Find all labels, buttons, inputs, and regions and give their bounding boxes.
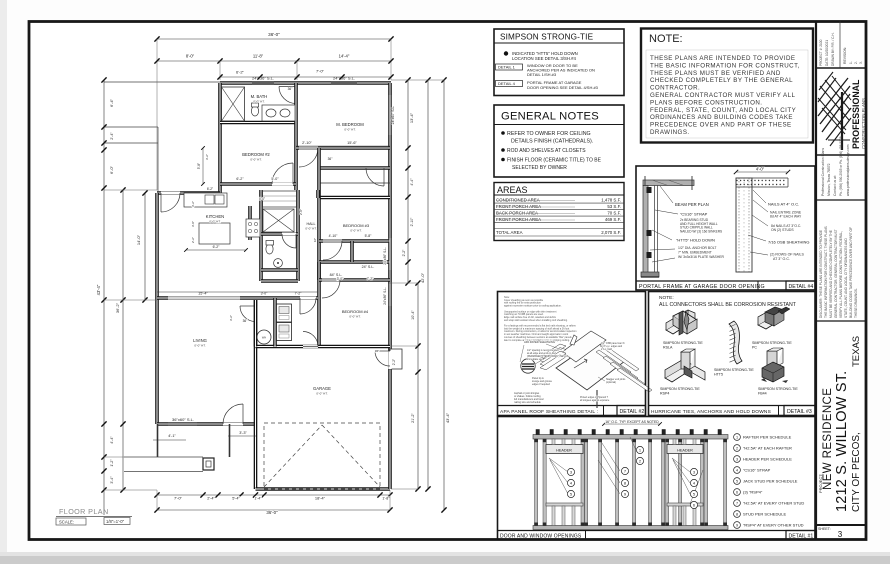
svg-text:TOTAL AREA: TOTAL AREA [496,230,523,235]
svg-text:TEXAS: TEXAS [851,336,862,367]
svg-text:SIMPSON STRONG-TIE: SIMPSON STRONG-TIE [752,341,792,345]
dim right chain x428 [427,80,429,489]
svg-text:immediate use: immediate use [527,358,543,361]
svg-text:6'-2": 6'-2" [236,177,244,181]
opening living kitchen [168,297,240,300]
svg-text:BEDROOM #3: BEDROOM #3 [343,223,370,228]
svg-text:4'-1": 4'-1" [168,434,176,438]
svg-text:DATE: 10/20/2021: DATE: 10/20/2021 [825,40,829,66]
portal frame panel box [636,166,815,290]
wall laundry left vertical [254,300,258,347]
wall kitchen counter return [248,206,252,240]
dim bedroom2 left small [202,148,204,184]
wall bedroom3 bottom [319,239,390,243]
hurricane panel box [649,292,816,416]
door bedroom4 [322,279,340,282]
closet rod line [319,182,390,184]
framing bottom plate [533,526,728,530]
framing leader lines [549,458,568,472]
svg-text:DETAIL #4: DETAIL #4 [789,284,814,290]
door master bath [294,87,297,106]
dim right horizontal extensions [391,79,445,81]
svg-text:1'-2": 1'-2" [110,459,114,467]
svg-text:HEADER: HEADER [556,449,572,453]
garage door chevron [264,425,322,487]
svg-text:against excessive moisture pri: against excessive moisture prior to roof… [504,305,562,308]
window mbed right wall [389,95,391,135]
hurricane detail3 label box [784,406,815,416]
water heater [257,330,271,344]
svg-text:NEW RESIDENCE: NEW RESIDENCE [822,388,834,490]
svg-text:18'-4": 18'-4" [315,496,326,501]
svg-text:SIMPSON STRONG-TIE: SIMPSON STRONG-TIE [500,33,594,42]
dim line top 36-0 [157,38,391,40]
svg-text:RAFTER PER SCHEDULE: RAFTER PER SCHEDULE [743,435,792,440]
svg-text:4'-0": 4'-0" [756,167,765,172]
APA ridge lumber stack [540,344,566,359]
svg-text:1/2" DIA. ANCHOR BOLT: 1/2" DIA. ANCHOR BOLT [678,246,716,250]
svg-text:36": 36" [375,349,379,353]
svg-text:13'-4": 13'-4" [409,112,414,123]
wall hall right vertical [316,190,320,198]
title block divider y321 [816,320,866,322]
svg-text:3: 3 [838,530,843,539]
svg-text:"HTT5" HOLD DOWN: "HTT5" HOLD DOWN [676,238,715,243]
svg-text:3'-2": 3'-2" [205,154,209,160]
svg-text:0'-0" HT.: 0'-0" HT. [316,392,327,396]
svg-text:5'-0": 5'-0" [271,177,279,181]
svg-text:CHECKED COMPLETELY BY THE GENE: CHECKED COMPLETELY BY THE GENERAL [650,77,793,84]
floor plan group [56,32,450,525]
wall bedroom4 top [319,278,390,282]
svg-text:"CS16" STRAP: "CS16" STRAP [680,212,708,217]
wall closet strip top [319,166,390,170]
svg-text:"H2.5A" AT EVERY OTHER STUD: "H2.5A" AT EVERY OTHER STUD [743,501,804,506]
wall kitchen top with back door [157,191,220,195]
svg-text:0'-0" HT.: 0'-0" HT. [349,315,360,319]
svg-text:GENERAL NOTES: GENERAL NOTES [501,111,599,123]
svg-text:0'-0" HT.: 0'-0" HT. [350,229,361,233]
svg-text:HEADER: HEADER [677,449,693,453]
svg-text:6: 6 [736,491,738,495]
hurricane strap HTT5 [729,321,742,364]
svg-text:0'-0" HT.: 0'-0" HT. [305,227,316,231]
wall garage bottom [256,487,391,491]
svg-text:21'-2": 21'-2" [411,413,415,423]
portal nail zone dots [736,180,737,181]
framing header right [667,445,703,454]
title block divider y525 [816,524,866,526]
svg-text:36'-2": 36'-2" [115,302,120,313]
portal post base [641,272,659,277]
svg-text:16" O.C. TYP. EXCEPT AS NOTED: 16" O.C. TYP. EXCEPT AS NOTED [605,420,659,424]
svg-text:KITCHEN: KITCHEN [206,214,224,219]
dim right chain x444 [443,80,445,510]
svg-text:NOTE:: NOTE: [659,295,674,301]
kitchen stove [246,219,260,237]
svg-text:PROFESSIONAL: PROFESSIONAL [851,79,861,149]
svg-text:M. BATH: M. BATH [251,94,268,99]
APA title bar [498,405,646,407]
svg-text:DRAWINGS.: DRAWINGS. [650,129,690,136]
svg-text:7: 7 [736,502,738,506]
svg-text:5'-4": 5'-4" [232,497,240,501]
wall garage left [254,300,258,489]
svg-text:6'-4": 6'-4" [109,98,114,107]
wall master bath bottom [220,121,296,125]
wall master bedroom bottom [296,146,390,150]
title block left border [815,21,817,540]
portal dim 4'-0 [736,171,788,173]
door bedroom3 [323,240,342,243]
svg-text:3: 3 [736,458,738,462]
APA eave post [596,390,598,408]
svg-text:nailing size and schedule: nailing size and schedule [514,401,541,404]
svg-text:3'-4": 3'-4" [110,476,114,484]
svg-text:6'-2": 6'-2" [207,187,213,191]
portal left post [643,186,648,277]
window top wall right 24x36 [331,82,357,84]
svg-text:M. BEDROOM: M. BEDROOM [336,122,364,127]
svg-text:36'-0": 36'-0" [268,32,280,37]
svg-text:CONDITIONED AREA: CONDITIONED AREA [496,198,540,203]
svg-text:FRONT PORCH AREA: FRONT PORCH AREA [496,204,541,209]
svg-text:5'-8": 5'-8" [365,234,373,238]
svg-text:7/16 OSB SHEATHING: 7/16 OSB SHEATHING [768,240,810,245]
svg-text:SCALE:: SCALE: [59,520,74,525]
closet2 divider [350,241,354,262]
APA panel box [498,292,646,416]
dim left chain x123 [122,190,124,490]
svg-text:GENERAL CONTRACTOR MUST VERIFY: GENERAL CONTRACTOR MUST VERIFY ALL [650,92,795,99]
svg-text:2'-0": 2'-0" [299,209,303,215]
wall bath2 left vertical [259,190,263,281]
svg-text:ROD AND SHELVES AT CLOSETS: ROD AND SHELVES AT CLOSETS [507,148,586,154]
svg-text:16": 16" [313,238,317,242]
svg-text:1'-4": 1'-4" [254,497,262,501]
svg-text:36": 36" [243,319,248,323]
portal leader lines [660,186,673,203]
hurricane glyph RSLA top-left [666,317,695,334]
hurricane glyph RSP4 bottom-left [665,368,689,382]
window bedroom3 right wall [389,238,391,270]
framing top plates [533,435,728,440]
svg-text:"RSP4" AT EVERY OTHER STUD: "RSP4" AT EVERY OTHER STUD [743,523,804,528]
svg-text:DETAIL 1/SH.#3: DETAIL 1/SH.#3 [527,72,557,77]
window living bottom 36x60 [168,423,197,425]
wall bath bedroom divider vertical [294,83,298,123]
svg-text:REVISION:: REVISION: [843,47,847,64]
svg-text:2'-10": 2'-10" [302,141,312,145]
svg-text:7" MIN. EMBEDMENT: 7" MIN. EMBEDMENT [678,250,712,254]
svg-text:9: 9 [736,524,738,528]
door hall opening [300,297,316,300]
dim left chain x145 [144,193,146,300]
svg-text:8'-0": 8'-0" [186,54,195,59]
framing sill right [667,503,703,506]
svg-text:15'-6": 15'-6" [347,141,357,145]
back door opening [161,192,180,195]
svg-text:4'-4": 4'-4" [110,436,114,444]
dim right chain x418 lower [417,283,419,489]
svg-text:HURRICANE TIES, ANCHORS AND HO: HURRICANE TIES, ANCHORS AND HOLD DOWNS [651,409,771,415]
svg-text:24"x36" S.L.: 24"x36" S.L. [333,76,355,81]
svg-text:24" S.L.: 24" S.L. [362,265,375,269]
svg-text:DETAILS FINISH (CATHEDRALS).: DETAILS FINISH (CATHEDRALS). [511,139,593,145]
svg-text:BUILDING CODES TAKE PRECEDENCE: BUILDING CODES TAKE PRECEDENCE OVER AND … [849,227,853,318]
svg-text:(optional): (optional) [606,381,616,384]
svg-text:1: 1 [736,436,738,440]
APA rafters [596,350,631,374]
title block divider y68 [816,67,866,69]
svg-text:RSP4: RSP4 [660,392,669,396]
svg-text:FRONT PORCH AREA: FRONT PORCH AREA [496,217,541,222]
svg-text:NAILS AT 4" O.C.: NAILS AT 4" O.C. [768,202,799,207]
front porch side walls [157,424,159,457]
portal frame title bar [636,280,815,282]
svg-text:14'-0": 14'-0" [136,234,141,245]
dim porch 3-3 [228,435,256,437]
svg-text:REFER TO OWNER FOR CEILING: REFER TO OWNER FOR CEILING [507,131,591,137]
svg-text:3'-0": 3'-0" [337,277,345,281]
svg-text:2'-2": 2'-2" [191,237,195,243]
general notes bullets [501,131,505,135]
svg-text:BEAM PER PLAN: BEAM PER PLAN [675,202,709,207]
svg-text:FLOOR PLAN: FLOOR PLAN [59,507,109,516]
NOTE box [641,29,813,143]
svg-text:SHEET:: SHEET: [818,527,831,531]
APA detail2 label box [617,406,646,416]
svg-text:0'-0" HT.: 0'-0" HT. [194,344,205,348]
wall closet strip bottom [319,196,390,200]
svg-text:HTT5: HTT5 [714,373,723,377]
svg-text:PLANS BEFORE CONSTRUCTION.: PLANS BEFORE CONSTRUCTION. [650,99,762,106]
svg-text:ON (2) STUDS: ON (2) STUDS [771,228,794,232]
framing sill left [546,503,583,506]
svg-text:DETAIL #3: DETAIL #3 [787,409,812,415]
svg-text:2 o.c. field: 2 o.c. field [601,348,613,351]
dim row2 [157,60,391,62]
SIMPSON detail 1 row [496,64,523,70]
front porch column [203,458,214,470]
wall exterior left upper [218,83,222,193]
hurricane title bar [649,405,816,407]
svg-text:HEADER PER SCHEDULE: HEADER PER SCHEDULE [743,457,792,462]
svg-text:PRECEDENCE OVER AND PART OF TH: PRECEDENCE OVER AND PART OF THESE [650,122,792,129]
svg-text:SIMPSON STRONG-TIE: SIMPSON STRONG-TIE [714,368,754,372]
window bedroom4 right wall [389,284,391,306]
svg-text:NOTE:: NOTE: [649,33,683,45]
svg-text:1'-8": 1'-8" [382,497,390,501]
svg-text:BEDROOM #2: BEDROOM #2 [242,152,270,157]
svg-text:SIMPSON STRONG-TIE: SIMPSON STRONG-TIE [758,387,798,391]
kitchen island [199,223,230,244]
door wc [282,233,296,236]
framing dim note [604,423,660,425]
APA isometric sheathing drawing [556,341,625,390]
kitchen counter and sink [184,193,227,207]
door master bedroom [299,147,318,150]
svg-text:and wrap skid resistant sheet: and wrap skid resistant sheet when insta… [504,319,568,322]
svg-text:36": 36" [328,157,333,161]
portal beam per plan [643,180,694,186]
door bedroom2 opening [272,182,293,185]
wall bedroom2 right lower stub [294,123,298,191]
dim bottom chain y495 [157,494,390,496]
framing studs [535,439,538,526]
garage door opening dashed [264,423,380,489]
svg-text:APA PANEL ROOF SHEATHING DETAI: APA PANEL ROOF SHEATHING DETAIL : [500,409,598,415]
door laundry-garage [303,345,318,348]
washer dryer [277,304,292,322]
svg-text:AREAS: AREAS [497,185,528,195]
hurricane glyph FB44 bottom-right [767,351,777,366]
svg-text:BEDROOM #4: BEDROOM #4 [342,309,369,314]
dim left horizontal extensions [104,489,157,491]
hurricane title text box [649,406,779,416]
svg-text:1212 S. WILLOW ST.: 1212 S. WILLOW ST. [834,371,850,512]
SIMPSON note bullet [504,51,508,55]
svg-text:6'-2": 6'-2" [213,245,221,249]
SIMPSON detail 4 row [496,81,523,87]
SIMPSON STRONG-TIE box [494,29,624,96]
svg-text:5'-8": 5'-8" [197,163,201,169]
portal title text box [636,281,758,290]
svg-text:JACK STUD PER SCHEDULE: JACK STUD PER SCHEDULE [743,479,798,484]
svg-text:5'-0": 5'-0" [259,197,265,201]
svg-text:PROJECT #: 2100: PROJECT #: 2100 [819,39,823,66]
wall bedroom4 bottom garage top [256,345,391,349]
svg-text:DOOR OPENING SEE DETAIL 4/SH.: DOOR OPENING SEE DETAIL 4/SH.#3 [527,85,599,90]
svg-text:Protect edges of Plywood T: Protect edges of Plywood T [580,396,609,399]
svg-text:Ph. (956) 590-2905 or Ph. (956: Ph. (956) 590-2905 or Ph. (956) 458-5308 [839,136,843,196]
master bath closet hatched [222,87,245,121]
svg-text:FB44: FB44 [758,392,767,396]
svg-text:1/8"=1'-0": 1/8"=1'-0" [106,519,125,524]
svg-text:SELECTED BY OWNER: SELECTED BY OWNER [512,165,567,171]
wall living bottom [157,422,254,426]
framing rafter blocks [536,430,539,435]
svg-text:0'-0" HT.: 0'-0" HT. [209,220,220,224]
svg-text:edges if required: edges if required [532,383,550,386]
svg-text:GENERAL CONTRACTOR. GENERAL CO: GENERAL CONTRACTOR. GENERAL CONTRACTOR M… [834,229,838,318]
svg-text:7'-0": 7'-0" [174,496,183,501]
wall water heater closet [273,298,277,347]
svg-text:VERIFY ALL PLANS BEFORE CONSTR: VERIFY ALL PLANS BEFORE CONSTRUCTION. FE… [839,231,843,318]
svg-text:6'-0": 6'-0" [109,165,114,174]
svg-text:1,478 S.F.: 1,478 S.F. [601,198,621,203]
svg-text:LOCATION SEE DETAIL 3/SH.#4: LOCATION SEE DETAIL 3/SH.#4 [512,56,577,61]
dim porch 4-1 [153,439,186,441]
bath2 closet hatched [263,209,294,232]
svg-text:3'-3": 3'-3" [239,431,247,435]
svg-text:36"x60" S.L.: 36"x60" S.L. [172,417,194,422]
svg-text:Mission, Texas 78572: Mission, Texas 78572 [827,163,831,196]
pantry shelves [263,191,297,207]
framing legend list [734,434,741,441]
svg-text:DISCLAIMER: THESE PLANS ARE I: DISCLAIMER: THESE PLANS ARE INTENDED TO … [819,230,823,318]
portal detail4 label box [786,281,815,290]
svg-text:FINISH FLOOR (CERAMIC TITLE) T: FINISH FLOOR (CERAMIC TITLE) TO BE [507,158,602,164]
svg-text:THESE DRAWINGS.: THESE DRAWINGS. [854,288,858,318]
wall middle vertical x319 [317,148,321,347]
wall wc top [261,232,298,236]
wall exterior left lower [155,193,159,424]
svg-text:0'-0" HT.: 0'-0" HT. [253,100,264,104]
wall linen bottom [261,279,298,283]
svg-text:THE BASIC INFORMATION FOR CONS: THE BASIC INFORMATION FOR CONSTRUCT. THE… [824,226,828,318]
svg-text:10'-4": 10'-4" [411,310,415,320]
back porch outline [104,81,220,83]
svg-text:SIMPSON STRONG-TIE: SIMPSON STRONG-TIE [663,341,703,345]
svg-text:24"x36" S.L.: 24"x36" S.L. [252,76,274,81]
door window detail1 label box [786,531,815,540]
svg-text:53 S.F.: 53 S.F. [607,204,621,209]
svg-text:CONSTRUCTION PLANS: CONSTRUCTION PLANS [861,98,866,149]
svg-text:THE BASIC INFORMATION FOR CONS: THE BASIC INFORMATION FOR CONSTRUCT, [650,62,800,69]
logo PROFESSIONAL CONSTRUCTION PLANS [818,78,848,116]
svg-text:PC: PC [752,346,757,350]
wall exterior right full [388,83,392,489]
garage side door bump [390,349,402,369]
svg-text:STATE, COUNT. AND LOCAL CITY O: STATE, COUNT. AND LOCAL CITY ORDINANCES … [844,238,848,318]
svg-text:"H2.5A" AT EACH RAFTER: "H2.5A" AT EACH RAFTER [743,446,792,451]
vanity master bath [262,105,295,121]
hurricane glyph PC top-right [758,316,782,329]
svg-text:24"x60" S.L.: 24"x60" S.L. [391,106,395,125]
svg-text:SIMPSON STRONG-TIE: SIMPSON STRONG-TIE [660,387,700,391]
svg-text:24"x36" S.L.: 24"x36" S.L. [383,247,387,265]
window top wall left 24x36 [252,82,274,84]
svg-text:2.: 2. [854,61,858,64]
framing header left [546,445,583,454]
portal right leaders [753,190,766,203]
svg-text:2,070 S.F.: 2,070 S.F. [601,230,621,235]
framing cripples right [673,439,676,445]
svg-text:CONTRACTOR.: CONTRACTOR. [650,85,700,92]
dim kitchen interior [186,249,246,251]
framing cripples left [552,439,555,445]
svg-text:GARAGE: GARAGE [313,386,331,391]
svg-text:2'-4": 2'-4" [207,497,215,501]
scan edge strip bottom [0,552,890,557]
svg-text:DETAIL 1: DETAIL 1 [498,65,516,70]
svg-text:LIVING: LIVING [193,338,207,343]
svg-text:DOOR AND WINDOW OPENINGS: DOOR AND WINDOW OPENINGS [500,534,582,540]
svg-text:42'-0": 42'-0" [420,272,425,283]
svg-text:6'-2": 6'-2" [236,70,245,75]
svg-text:THESE PLANS ARE INTENDED TO PR: THESE PLANS ARE INTENDED TO PROVIDE [650,55,796,62]
svg-text:all tongues against exposure: all tongues against exposure [580,399,610,402]
wall bath2 right vertical [296,190,300,281]
title block project info text [839,21,841,68]
svg-text:DETAIL #1: DETAIL #1 [789,534,814,540]
svg-text:STUD PER SCHEDULE: STUD PER SCHEDULE [743,512,786,517]
svg-text:DRAWN BY: P.R. / C.H.: DRAWN BY: P.R. / C.H. [831,32,835,66]
svg-text:3'-0": 3'-0" [191,221,195,227]
svg-text:CITY OF PECOS,: CITY OF PECOS, [851,432,862,512]
title block divider y200 [816,199,866,201]
svg-text:4'-4": 4'-4" [410,178,414,186]
door window panel box [498,417,816,540]
portal post connectors [647,187,652,193]
svg-text:2'-2": 2'-2" [392,359,396,365]
svg-text:4: 4 [736,469,738,473]
svg-text:3'-2": 3'-2" [191,201,195,207]
svg-text:0'-0" HT.: 0'-0" HT. [344,128,355,132]
closet door arc [383,168,385,186]
svg-text:0'-0" HT.: 0'-0" HT. [250,158,261,162]
